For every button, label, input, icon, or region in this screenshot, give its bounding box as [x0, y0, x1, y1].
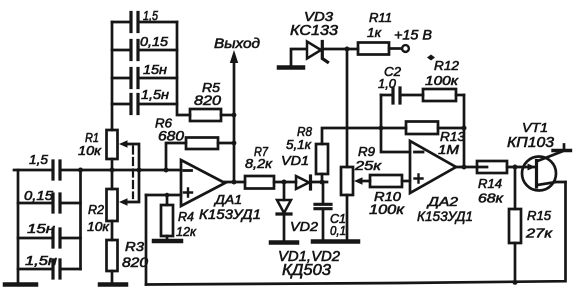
svg-text:R14: R14 [478, 176, 502, 191]
wire R2 to R3 [111, 221, 114, 240]
node junction R14 / R15 [513, 165, 518, 170]
terminal +15В [394, 27, 432, 52]
ground bar under VD2 [271, 240, 297, 245]
diode VD1 (series) [281, 153, 327, 189]
op-amp DA2 К153УД1 [410, 141, 473, 224]
resistor R1 10к (potentiometer half) [78, 130, 118, 159]
node junction R15 / bottom rail [513, 280, 518, 285]
resistor R6 680 [155, 116, 234, 171]
resistor R11 1к [358, 10, 401, 55]
svg-text:VT1: VT1 [522, 120, 548, 135]
resistor R14 68к [477, 161, 524, 206]
wire main input bus to DA1 minus [61, 169, 181, 172]
capacitor 1,5н (top bank) [112, 87, 177, 114]
svg-text:R3: R3 [125, 239, 145, 254]
svg-text:680: 680 [158, 128, 184, 144]
wire C2/R13 node down to DA2 minus [381, 95, 410, 152]
node junction lower bus / main wire [78, 168, 83, 173]
svg-text:1,5: 1,5 [143, 8, 159, 23]
wiper of R9 to R10 [354, 177, 370, 185]
wire R8 top to R13 row [322, 128, 406, 144]
svg-text:1,5н: 1,5н [141, 87, 169, 102]
svg-text:100к: 100к [369, 202, 405, 217]
svg-text:КС133: КС133 [290, 23, 338, 39]
wire R12/R13 to DA2 output [463, 95, 466, 167]
wire DA2 output to R14 [456, 166, 487, 169]
resistor R2 10к (potentiometer half) [87, 189, 118, 234]
ground bar left bottom [5, 282, 36, 287]
svg-text:0,1: 0,1 [330, 224, 346, 238]
svg-text:Выход: Выход [214, 35, 260, 51]
svg-text:10к: 10к [87, 219, 110, 234]
svg-text:КД503: КД503 [282, 262, 331, 279]
capacitor 15н (lower bank) [18, 221, 81, 247]
wire left bus down [17, 170, 20, 284]
svg-text:VD3: VD3 [304, 9, 334, 24]
node junction VD2 tap [282, 180, 287, 185]
node junction R13 / vertical [462, 126, 467, 131]
svg-text:1,0: 1,0 [378, 76, 397, 91]
wire top bank left bus [111, 22, 114, 130]
wiper link R1-R2 [119, 140, 139, 206]
svg-text:1к: 1к [367, 25, 382, 40]
svg-text:1,5: 1,5 [29, 152, 49, 167]
ground bar under R3 [100, 282, 126, 287]
resistor R5 820 [190, 80, 234, 121]
wire DA1 plus input [146, 194, 181, 197]
capacitor 0,15 (lower bank) [18, 188, 81, 212]
node junction zener / R9 drop [345, 47, 350, 52]
ground bar for VD3 [279, 65, 303, 70]
wire zener node down to R9 [346, 49, 349, 167]
capacitor C1 0,1 [315, 182, 346, 241]
svg-text:100к: 100к [425, 73, 459, 88]
svg-text:R15: R15 [527, 208, 552, 223]
node junction R4 / plus wire [165, 193, 170, 198]
resistor R13 1М [406, 122, 466, 158]
svg-text:0,15: 0,15 [24, 188, 54, 203]
capacitor 15н (top bank) [112, 62, 177, 88]
svg-text:820: 820 [194, 92, 221, 108]
svg-text:R2: R2 [88, 202, 105, 217]
resistor R9 25к (trimmer) [341, 144, 382, 241]
resistor R8 5,1к [286, 124, 328, 182]
node junction output / vertical [462, 165, 467, 170]
diode VD2 (shunt to ground) [277, 182, 319, 242]
node junction wiper link / main wire [137, 168, 142, 173]
node junction VD1/R8/C1 [320, 180, 325, 185]
svg-text:820: 820 [122, 255, 149, 270]
transistor VT1 КП103 (p-JFET) [507, 120, 571, 191]
node junction R1R2 / main wire [110, 168, 115, 173]
svg-text:15н: 15н [143, 62, 167, 77]
dashed mechanical link R1-R2 [132, 147, 134, 199]
node junction output bus / output [232, 180, 237, 185]
svg-text:+15 В: +15 В [394, 27, 432, 43]
svg-text:R11: R11 [369, 10, 392, 25]
wire top bank right bus [177, 22, 190, 115]
svg-text:К153УД1: К153УД1 [199, 206, 261, 222]
svg-text:R4: R4 [178, 209, 194, 224]
node junction R6 / minus wire [164, 168, 169, 173]
node junction R6 / output bus [232, 141, 237, 146]
svg-text:15н: 15н [27, 221, 55, 236]
svg-text:12к: 12к [176, 224, 197, 239]
resistor R10 100к [369, 175, 410, 217]
op-amp DA1 К153УД1 [181, 160, 261, 222]
svg-text:ДА1: ДА1 [213, 192, 242, 207]
wire output bus to Выход arrow [214, 35, 260, 182]
capacitor 0,15 (top bank) [112, 34, 177, 60]
capacitor 1,5 (series in main wire) [29, 152, 60, 179]
svg-text:ДА2: ДА2 [426, 194, 459, 209]
svg-text:КП103: КП103 [507, 135, 554, 151]
svg-text:25к: 25к [354, 158, 382, 173]
wire bottom rail [146, 182, 566, 285]
wire DA1 output [225, 181, 245, 184]
svg-text:0,15: 0,15 [140, 34, 169, 49]
wire main input bus left segment [14, 169, 52, 172]
wire plus input down to bottom rail [145, 195, 148, 285]
resistor R15 27к [509, 167, 553, 283]
svg-text:1М: 1М [438, 142, 459, 157]
node junction R5 / output bus [232, 113, 237, 118]
wire R1 bottom through main wire to R2 top [111, 159, 114, 189]
diode VD3 КС133 (zener) [290, 9, 358, 67]
svg-text:68к: 68к [478, 191, 504, 206]
svg-text:VD2: VD2 [290, 219, 319, 234]
wire R3 to ground [111, 271, 114, 284]
node junction R13 wire / C2 drop [379, 126, 384, 131]
capacitor 1,5 (top bank) [112, 8, 177, 32]
ground bar under R4 [154, 239, 181, 244]
svg-text:8,2к: 8,2к [245, 156, 273, 171]
svg-text:10к: 10к [78, 143, 102, 158]
svg-text:5,1к: 5,1к [286, 137, 312, 152]
resistor R4 12к [161, 195, 197, 240]
svg-text:R12: R12 [434, 58, 460, 73]
capacitor 1,5н (lower bank) [18, 253, 81, 278]
ground bar under C1 and R9 [313, 239, 358, 244]
resistor R12 100к [423, 55, 464, 102]
svg-text:1,5н: 1,5н [25, 253, 57, 268]
svg-text:К153УД1: К153УД1 [417, 208, 473, 224]
resistor R7 8,2к [245, 144, 296, 189]
svg-text:VD1: VD1 [281, 153, 309, 168]
capacitor C2 1,0 [378, 64, 423, 103]
svg-text:27к: 27к [525, 226, 553, 241]
resistor R3 820 [107, 239, 149, 271]
svg-text:R9: R9 [358, 144, 375, 159]
label VD1,VD2 КД503 [278, 248, 341, 279]
wire lower bank right bus [79, 170, 82, 269]
